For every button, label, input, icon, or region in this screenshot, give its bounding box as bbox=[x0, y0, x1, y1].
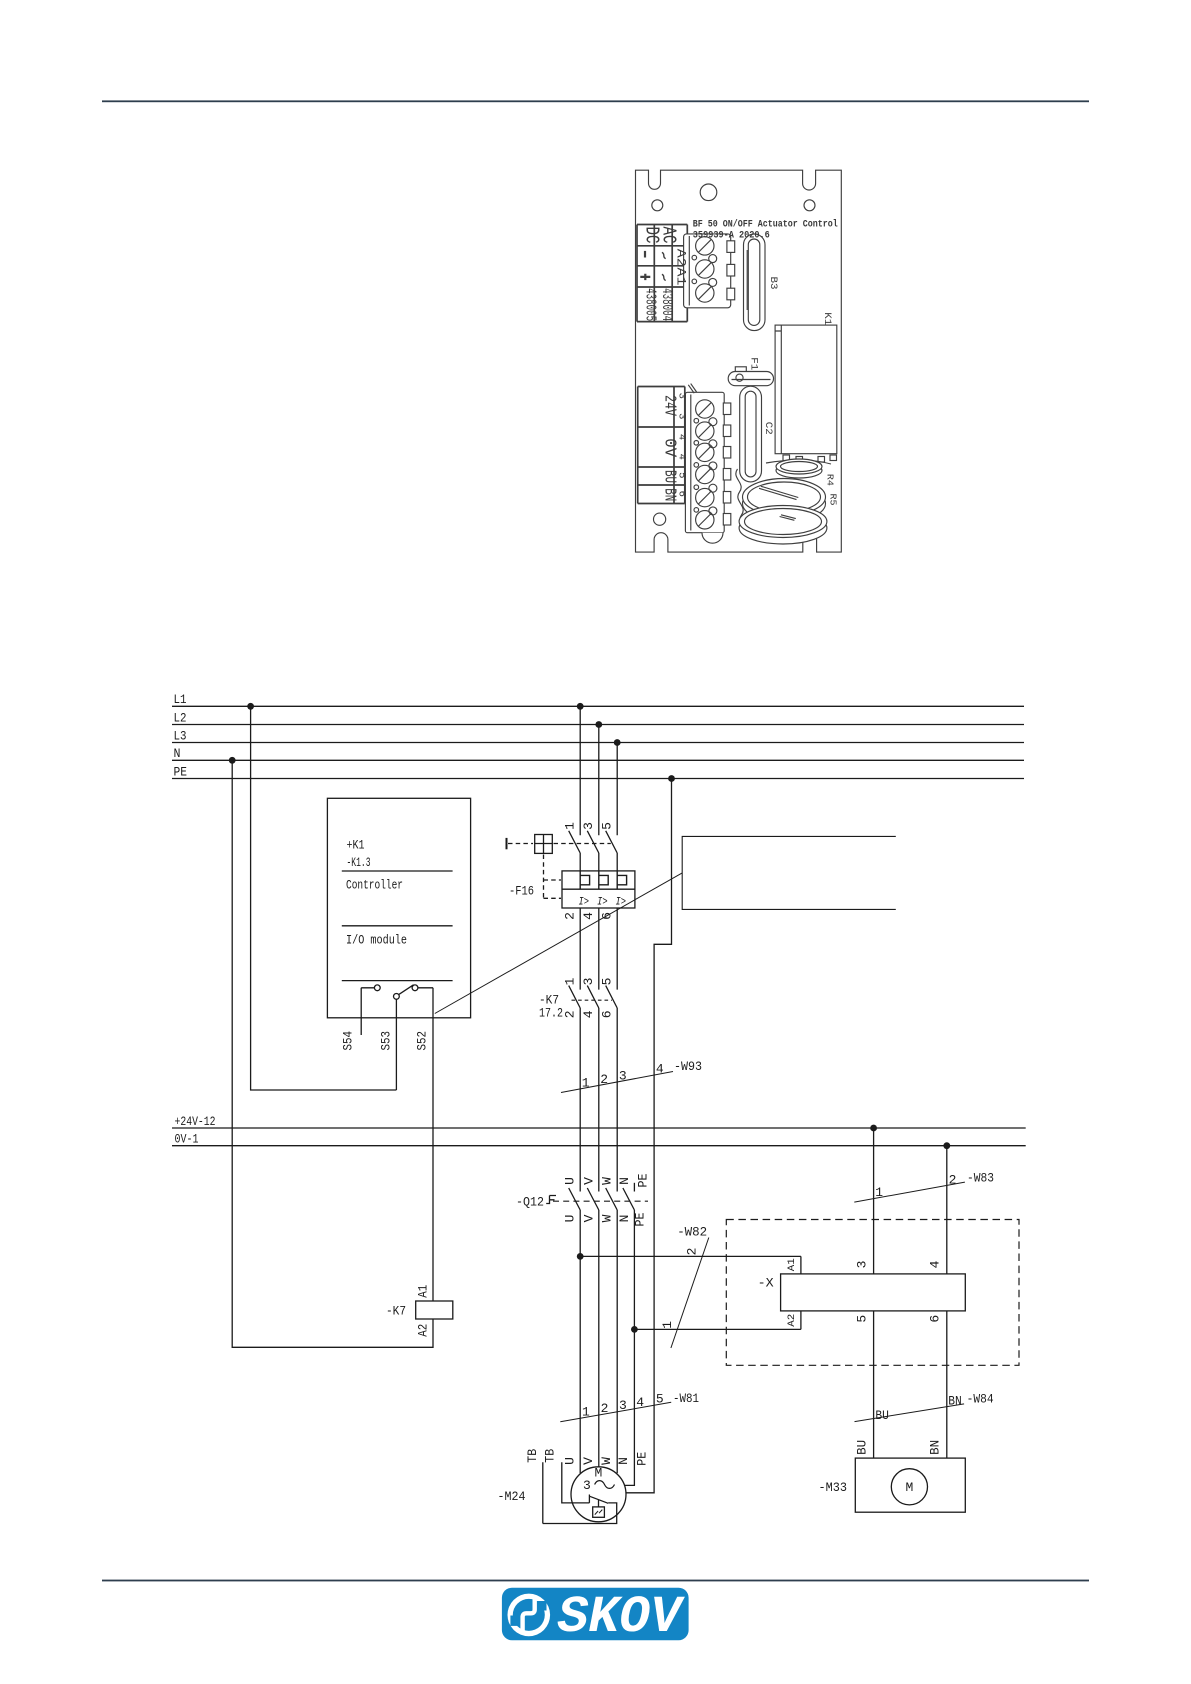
svg-text:V: V bbox=[581, 1214, 596, 1222]
svg-text:L3: L3 bbox=[174, 728, 187, 743]
svg-text:5: 5 bbox=[854, 1315, 869, 1323]
svg-text:N: N bbox=[174, 746, 181, 761]
svg-text:1: 1 bbox=[875, 1185, 883, 1200]
svg-text:N: N bbox=[617, 1215, 632, 1223]
svg-text:1: 1 bbox=[582, 1076, 590, 1091]
svg-text:L1: L1 bbox=[174, 692, 187, 707]
svg-text:4: 4 bbox=[675, 434, 687, 440]
svg-text:6: 6 bbox=[675, 491, 687, 497]
svg-text:PE: PE bbox=[633, 1212, 648, 1226]
svg-text:U: U bbox=[563, 1215, 578, 1223]
svg-text:F1: F1 bbox=[747, 357, 758, 370]
svg-text:-W81: -W81 bbox=[673, 1391, 699, 1406]
svg-text:I>: I> bbox=[579, 897, 590, 909]
svg-text:AC: AC bbox=[657, 227, 679, 244]
svg-text:2: 2 bbox=[563, 1010, 578, 1018]
svg-text:BF 50 ON/OFF Actuator Control: BF 50 ON/OFF Actuator Control bbox=[693, 218, 838, 230]
svg-text:-M33: -M33 bbox=[819, 1480, 848, 1495]
svg-text:PE: PE bbox=[635, 1173, 650, 1187]
svg-text:359939-A 2020.6: 359939-A 2020.6 bbox=[693, 230, 770, 242]
svg-text:6: 6 bbox=[600, 1010, 615, 1018]
svg-text:1: 1 bbox=[660, 1321, 675, 1329]
svg-text:-Q12: -Q12 bbox=[516, 1195, 544, 1210]
svg-text:5: 5 bbox=[600, 978, 615, 986]
svg-text:1: 1 bbox=[582, 1404, 590, 1419]
svg-text:U: U bbox=[563, 1177, 578, 1185]
svg-text:4: 4 bbox=[581, 912, 596, 920]
svg-text:438004: 438004 bbox=[658, 288, 675, 321]
svg-text:1: 1 bbox=[563, 822, 578, 830]
svg-text:2: 2 bbox=[949, 1173, 957, 1188]
svg-text:2: 2 bbox=[563, 912, 578, 920]
svg-text:L2: L2 bbox=[174, 710, 187, 725]
svg-text:R4: R4 bbox=[824, 474, 834, 486]
svg-text:W: W bbox=[599, 1457, 614, 1465]
svg-text:3: 3 bbox=[675, 393, 687, 399]
svg-text:3: 3 bbox=[581, 822, 596, 830]
svg-text:3: 3 bbox=[854, 1261, 869, 1269]
svg-text:-W84: -W84 bbox=[967, 1392, 994, 1407]
svg-text:BU: BU bbox=[875, 1408, 889, 1423]
svg-text:4: 4 bbox=[656, 1062, 664, 1077]
svg-text:5: 5 bbox=[600, 822, 615, 830]
svg-text:A2: A2 bbox=[674, 249, 689, 267]
svg-text:+24V-12: +24V-12 bbox=[175, 1114, 216, 1129]
svg-text:R5: R5 bbox=[828, 494, 838, 506]
svg-text:I>: I> bbox=[616, 897, 627, 909]
svg-text:N: N bbox=[617, 1177, 632, 1185]
svg-text:U: U bbox=[563, 1457, 578, 1465]
svg-text:BN: BN bbox=[948, 1394, 962, 1409]
svg-text:5: 5 bbox=[656, 1392, 664, 1407]
svg-text:PE: PE bbox=[634, 1452, 649, 1466]
svg-text:C2: C2 bbox=[762, 422, 773, 435]
svg-text:-F16: -F16 bbox=[509, 884, 534, 899]
svg-text:-K1.3: -K1.3 bbox=[347, 855, 371, 870]
svg-text:A1: A1 bbox=[416, 1285, 431, 1298]
svg-text:4: 4 bbox=[675, 454, 687, 460]
svg-text:6: 6 bbox=[928, 1315, 943, 1323]
svg-text:2: 2 bbox=[601, 1401, 609, 1416]
svg-text:K1: K1 bbox=[821, 312, 832, 325]
svg-text:-W82: -W82 bbox=[677, 1224, 707, 1239]
svg-text:3: 3 bbox=[619, 1398, 627, 1413]
svg-text:-W83: -W83 bbox=[967, 1171, 994, 1186]
svg-text:SKOV: SKOV bbox=[558, 1588, 686, 1647]
svg-text:3: 3 bbox=[619, 1069, 627, 1084]
svg-text:3: 3 bbox=[583, 1478, 591, 1493]
svg-text:4: 4 bbox=[636, 1395, 644, 1410]
svg-text:Controller: Controller bbox=[346, 878, 403, 893]
svg-text:17.2: 17.2 bbox=[539, 1006, 563, 1021]
svg-text:3: 3 bbox=[675, 413, 687, 419]
svg-text:BU: BU bbox=[854, 1440, 869, 1455]
svg-text:0V-1: 0V-1 bbox=[175, 1132, 199, 1147]
svg-text:I>: I> bbox=[597, 897, 608, 909]
svg-text:S52: S52 bbox=[415, 1031, 430, 1051]
svg-text:W: W bbox=[600, 1214, 615, 1222]
svg-text:4: 4 bbox=[581, 1010, 596, 1018]
svg-text:S53: S53 bbox=[379, 1031, 394, 1051]
svg-text:4: 4 bbox=[928, 1260, 943, 1268]
svg-text:-W93: -W93 bbox=[674, 1059, 702, 1074]
svg-text:-X: -X bbox=[758, 1275, 774, 1290]
svg-text:+K1: +K1 bbox=[347, 838, 365, 853]
svg-text:V: V bbox=[581, 1177, 596, 1185]
svg-text:N: N bbox=[616, 1457, 631, 1465]
svg-text:A2: A2 bbox=[786, 1314, 798, 1327]
svg-text:B3: B3 bbox=[767, 277, 778, 290]
svg-text:6: 6 bbox=[600, 912, 615, 920]
svg-text:BN: BN bbox=[927, 1440, 942, 1455]
svg-text:S54: S54 bbox=[341, 1031, 356, 1051]
svg-text:A1: A1 bbox=[786, 1258, 798, 1271]
svg-text:3: 3 bbox=[581, 978, 596, 986]
svg-text:M: M bbox=[906, 1480, 914, 1495]
svg-text:TB: TB bbox=[525, 1449, 540, 1463]
svg-text:A1: A1 bbox=[674, 268, 689, 286]
svg-text:I/O module: I/O module bbox=[346, 933, 407, 948]
svg-text:1: 1 bbox=[563, 977, 578, 985]
svg-text:W: W bbox=[600, 1177, 615, 1185]
svg-text:M: M bbox=[595, 1466, 603, 1481]
svg-text:438005: 438005 bbox=[642, 288, 659, 321]
svg-text:2: 2 bbox=[685, 1248, 700, 1256]
svg-text:-K7: -K7 bbox=[386, 1304, 406, 1319]
svg-text:PE: PE bbox=[174, 764, 188, 779]
svg-text:5: 5 bbox=[675, 472, 687, 478]
svg-text:-M24: -M24 bbox=[498, 1489, 526, 1504]
svg-text:TB: TB bbox=[542, 1449, 557, 1463]
svg-text:V: V bbox=[581, 1457, 596, 1465]
svg-text:A2: A2 bbox=[416, 1324, 431, 1337]
svg-text:2: 2 bbox=[600, 1072, 608, 1087]
